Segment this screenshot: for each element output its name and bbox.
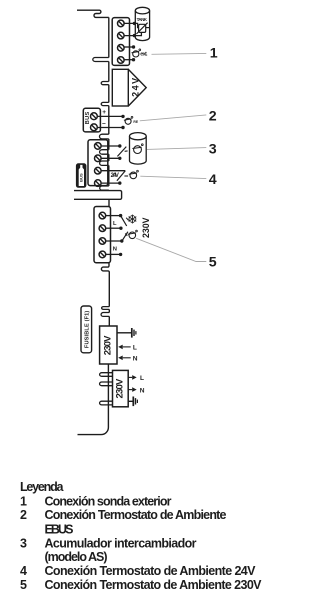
svg-text:FUSIBLE (F1): FUSIBLE (F1) [85, 311, 91, 349]
terminal block EBUS outline [83, 108, 100, 132]
svg-text:BUS: BUS [85, 111, 91, 124]
svg-text:24V: 24V [130, 78, 140, 97]
tank cylinder [135, 7, 149, 40]
connector hooks pump [100, 373, 113, 377]
terminal X3 pin 1 screw [95, 143, 102, 150]
switch contact tank [117, 147, 126, 157]
switch contact RT230 [122, 232, 128, 241]
wire spine seg7 [108, 165, 110, 186]
wire X1-2 to tank sensor [124, 33, 141, 36]
switch stub cooling [126, 218, 128, 221]
svg-text:1: 1 [210, 45, 218, 61]
wire X3-1 [101, 145, 120, 147]
leader line 3 [147, 148, 206, 150]
switch stub RT230 [125, 234, 127, 236]
wire board edge spine upper [108, 17, 110, 57]
connector hook D [100, 150, 109, 155]
svg-text:N: N [133, 356, 138, 363]
arrow L output [128, 376, 132, 378]
arrow L mains [118, 345, 123, 350]
svg-text:5: 5 [20, 578, 27, 592]
terminal block X5 outline [94, 207, 111, 263]
terminal EBUS + screw [91, 113, 98, 120]
terminal X1 pin 1 screw [118, 20, 125, 27]
block 24V supply chevron [129, 70, 147, 106]
terminal X5 pin 2 screw [99, 225, 106, 232]
connector hook E [100, 161, 109, 165]
junction X5-4 [119, 253, 122, 256]
wire spine seg3 [108, 85, 110, 103]
connector EBUS plug slot [79, 165, 84, 186]
junction X1-1 [133, 22, 136, 25]
svg-text:L: L [113, 221, 117, 227]
wire X1-3 [124, 46, 134, 48]
wire X5-4 N [106, 253, 121, 255]
junction EBUS plus [121, 115, 124, 118]
terminal X1 pin 2 screw [118, 32, 125, 39]
connector EBUS plug body [76, 164, 86, 188]
wire spine seg2 [108, 62, 110, 82]
wire below X5 hairpin [101, 263, 109, 307]
wire X1-1 to tank sensor [124, 23, 139, 27]
tank NTC sensor diagonal [136, 23, 147, 34]
symbol snowflake cooling [129, 215, 136, 223]
wire tank sensor to wall [146, 27, 150, 29]
switch contact RT24 [117, 171, 125, 181]
sensor accumulator theta [132, 144, 143, 154]
sensor outdoor theta ext [132, 49, 141, 57]
wire board lower edge [74, 191, 122, 200]
terminal X1 pin 3 screw [118, 45, 125, 52]
ground mains [117, 328, 136, 338]
wire X3-3 [101, 170, 125, 172]
block 24V supply rect [112, 69, 128, 106]
svg-text:Conexión sonda exterior: Conexión sonda exterior [45, 494, 172, 508]
wire spine seg8 [108, 189, 110, 191]
switch contact cooling [121, 216, 127, 226]
terminal X3 pin 2 screw [95, 155, 102, 162]
terminal block X1 outline [112, 18, 129, 66]
switch stub tank [125, 150, 128, 152]
junction X1-3 [132, 45, 135, 48]
junction X3-1 [118, 144, 121, 147]
terminal X3 pin 4 screw [95, 180, 102, 187]
sensor room thermostat EBUS [124, 116, 133, 124]
svg-text:1: 1 [20, 494, 27, 508]
wire X5-2 L [106, 227, 121, 229]
wire spine seg5 [108, 139, 110, 150]
terminal X3 pin 3 screw [95, 167, 102, 174]
junction X1-2 [133, 34, 136, 37]
wire mains to pump [78, 364, 109, 435]
wire X3-4 [101, 182, 120, 184]
svg-text:(modelo AS): (modelo AS) [45, 550, 108, 564]
svg-text:4: 4 [20, 564, 27, 578]
wire spine seg4 [108, 106, 110, 135]
wire X3-2 [101, 157, 120, 159]
junction X1-4 [132, 58, 135, 61]
sensor room thermostat 24V [129, 170, 139, 178]
svg-text:ext.: ext. [140, 51, 148, 57]
leader line 5 [136, 238, 206, 261]
wire X1-4 [124, 59, 134, 61]
svg-text:Conexión Termostato de Ambient: Conexión Termostato de Ambiente [45, 508, 227, 522]
svg-text:2: 2 [20, 508, 27, 522]
leader line 1 [152, 52, 207, 55]
svg-text:230V: 230V [102, 335, 113, 355]
wire X5-1 [106, 215, 121, 217]
svg-text:Leyenda: Leyenda [20, 480, 65, 494]
svg-text:BUS: BUS [79, 173, 84, 182]
wire EBUS plus [97, 115, 123, 117]
wire board edge top hairpin [77, 10, 109, 17]
block output 230V outline [113, 370, 129, 406]
svg-text:2: 2 [209, 108, 217, 124]
svg-text:Conexión Termostato de Ambient: Conexión Termostato de Ambiente 230V [45, 578, 263, 592]
svg-text:EBUS: EBUS [45, 522, 74, 536]
switch stub RT24 [124, 175, 128, 177]
terminal X1 pin 4 screw [118, 57, 125, 64]
connector hook B [101, 102, 109, 105]
svg-text:5: 5 [209, 254, 217, 270]
leader line 2 [140, 115, 207, 121]
terminal X5 pin 1 screw [99, 212, 106, 219]
svg-text:−: − [102, 121, 106, 128]
arrow N output [128, 389, 132, 391]
svg-text:230V: 230V [115, 378, 126, 398]
terminal block X3 outline [88, 140, 108, 186]
junction X3-2 [118, 157, 121, 160]
wire lower board drop [108, 199, 110, 206]
tank NTC sensor body [139, 24, 146, 32]
junction X3-4 [118, 181, 121, 184]
accumulator cylinder [130, 133, 147, 165]
wire spine seg6 [108, 154, 110, 161]
label box FUSIBLE (F1) [81, 306, 92, 353]
junction X5-2 [119, 227, 122, 230]
svg-text:4: 4 [209, 172, 217, 188]
wire X5-3 [106, 240, 122, 242]
terminal EBUS - screw [91, 124, 98, 131]
connector tab X10 [93, 58, 109, 62]
svg-text:3: 3 [209, 141, 217, 157]
wire EBUS minus [97, 127, 123, 129]
ground output [128, 397, 137, 407]
connector hook C [99, 134, 108, 139]
svg-text:L: L [133, 345, 137, 352]
connector hook A [101, 82, 109, 85]
svg-text:230V: 230V [141, 217, 151, 238]
block mains 230V outline [100, 326, 117, 364]
svg-text:3: 3 [20, 536, 27, 550]
svg-text:RE: RE [133, 120, 138, 124]
junction X5-1 [119, 214, 122, 217]
svg-text:Acumulador intercambiador: Acumulador intercambiador [45, 536, 197, 550]
arrow N mains [118, 356, 123, 361]
junction X5-3 [120, 239, 123, 242]
svg-text:L: L [140, 375, 144, 382]
svg-text:TANK: TANK [137, 17, 148, 22]
svg-text:N: N [140, 387, 145, 394]
fuse F1 hooks [102, 307, 110, 310]
connector hook F [100, 186, 109, 190]
svg-text:+: + [102, 109, 106, 116]
junction EBUS minus [121, 126, 124, 129]
svg-text:Conexión Termostato de Ambient: Conexión Termostato de Ambiente 24V [45, 564, 257, 578]
terminal X5 pin 4 screw [99, 251, 106, 258]
leader line 4 [140, 176, 206, 178]
svg-text:24V: 24V [111, 173, 119, 179]
terminal X5 pin 3 screw [99, 238, 106, 245]
svg-text:N: N [113, 246, 117, 252]
sensor room thermostat 230V [128, 230, 138, 238]
